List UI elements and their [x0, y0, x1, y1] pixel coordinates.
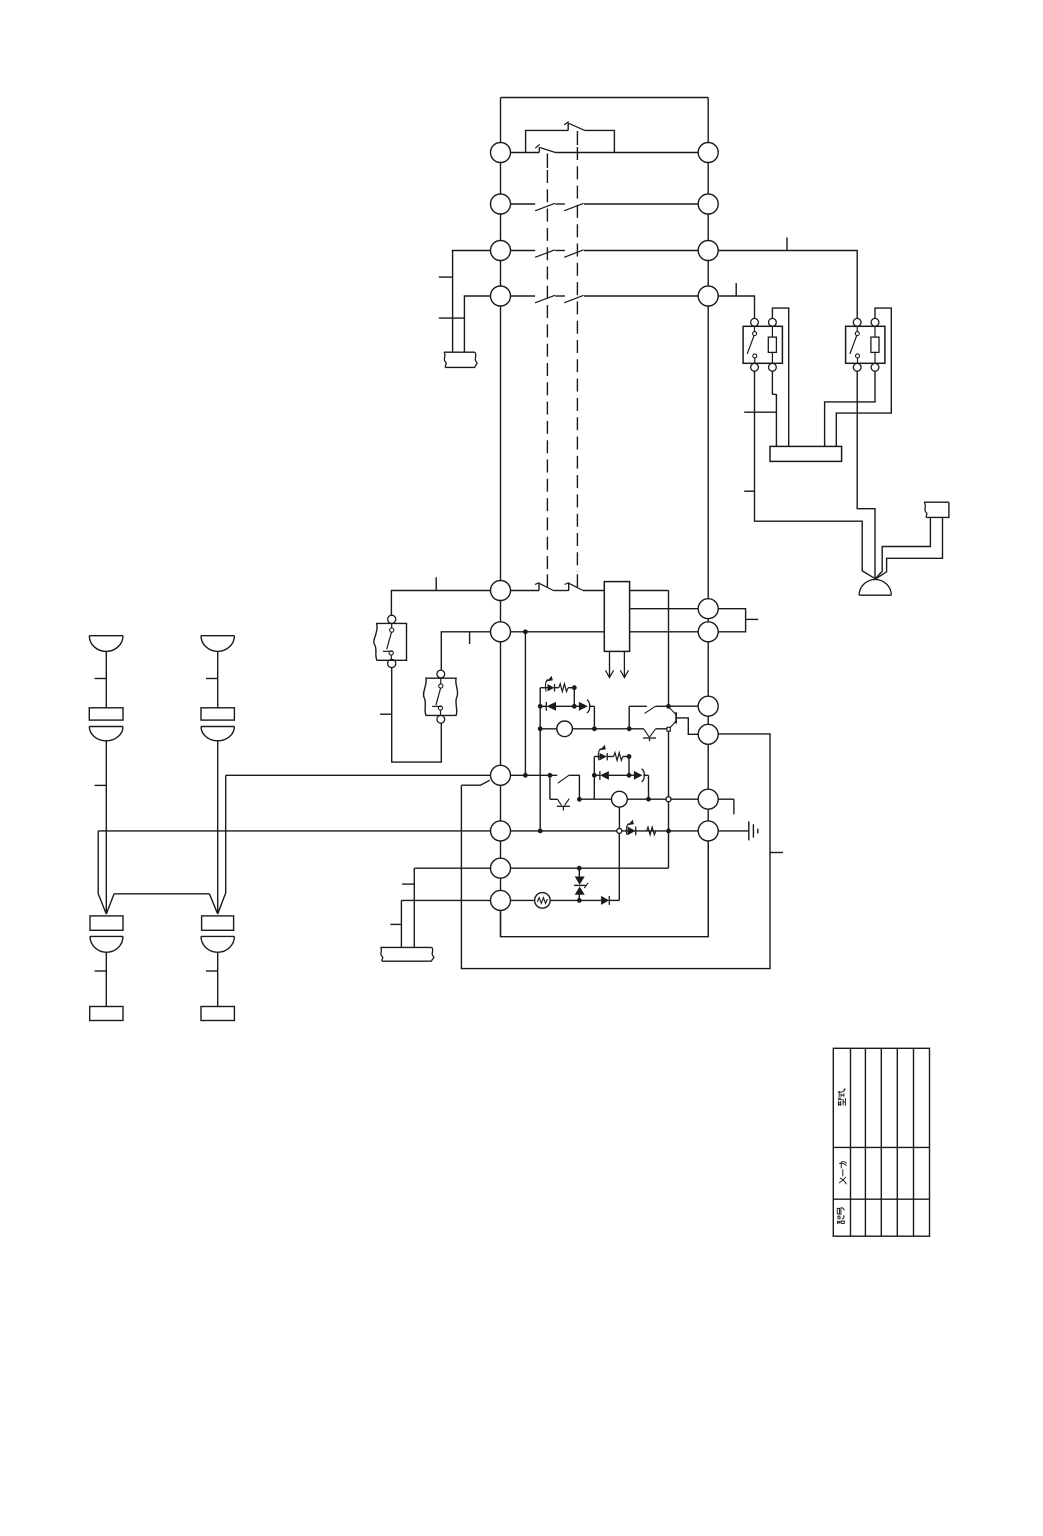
- ground symbol (rotated): [749, 821, 758, 840]
- junction dot D1/R1 output: [572, 685, 577, 690]
- terminal CN-L2 (row2 left): [491, 194, 511, 214]
- terminal CN-L6 (row6 left): [491, 622, 511, 642]
- terminal CN-L10 (row10 left): [491, 890, 511, 910]
- wire: transformer to terminal r5: [630, 608, 709, 610]
- connector tick on row6 left lead: [469, 632, 471, 644]
- switch S1b row1 bypass contact: [526, 122, 615, 153]
- heater H2 socket block: [202, 916, 234, 930]
- diode D2 (pointing left): [540, 702, 574, 711]
- terminal CN-R9 (r9 right): [698, 789, 718, 809]
- wire: row4 extension to box K1: [708, 296, 754, 318]
- wire: vertical branch row6 down to row7: [524, 632, 526, 776]
- diode D5 (pointing left): [594, 771, 629, 780]
- junction dot R2 output: [627, 754, 632, 759]
- table label メーカ (maker) rotated: [839, 1162, 846, 1185]
- switch box K2: [846, 318, 885, 371]
- switch S5 row5 contacts: [501, 583, 605, 591]
- connector tick H1 upper: [95, 678, 107, 680]
- junction dot row10 / zener branch: [577, 898, 582, 903]
- connector tick on K1 bottom-left lead: [744, 490, 754, 492]
- wire: right terminal column vertical: [707, 98, 709, 937]
- parts table grid: [833, 1048, 929, 1236]
- surge diode D6 (pointing right, curved cathode): [629, 769, 649, 782]
- wire: plug P3 lead 2 (staircase to motor tip): [876, 517, 943, 579]
- connector tick H2 upper: [206, 678, 218, 680]
- junction dot row8 / net A: [538, 829, 543, 834]
- wire: row6 from circle to transformer: [501, 631, 605, 633]
- switch S3 row3 contacts: [501, 250, 709, 257]
- wire: diode output up to row8 connector: [618, 833, 620, 900]
- mechanical linkage dashed line 2: [576, 131, 578, 587]
- wire: base node to terminal r7: [669, 705, 709, 707]
- junction dot diode row middle: [627, 773, 632, 778]
- junction dot row7 / row6 branch: [523, 773, 528, 778]
- switch S1a row1 main contact: [501, 144, 709, 152]
- thermal cutout TH1: [374, 615, 407, 667]
- wire: row9 drop to plug P2: [413, 868, 415, 947]
- SCR Q2 (triac drive): [550, 775, 580, 810]
- photo-transistor Q1 with base switch blade: [629, 706, 698, 734]
- wire: long control vertical down to opto transistor: [668, 591, 670, 707]
- wire: row7 feed drop to H2 tip: [218, 775, 226, 914]
- resistor R3 on row8: [647, 827, 656, 835]
- crossing hop circle at rail2: [666, 797, 671, 802]
- wire: TH1 bottom to TH2 bottom loop: [392, 668, 442, 763]
- thermal cutout TH2: [423, 670, 457, 723]
- terminal CN-R1 (row1 right): [698, 143, 718, 163]
- wire: H1 socket lead: [105, 952, 107, 1006]
- resistor R1: [555, 684, 575, 692]
- terminal CN-L3 (row3 left): [491, 241, 511, 261]
- table label 型式 (model) rotated: [838, 1089, 846, 1106]
- wire: outer box (r8 loop): [461, 734, 770, 969]
- resistor R2: [607, 753, 629, 761]
- connector tick on row5 left lead: [435, 577, 437, 590]
- heater H1 terminal block: [90, 1007, 123, 1021]
- heater H1 socket block: [90, 916, 123, 930]
- wire: diode row down to lamp row: [593, 706, 595, 729]
- wire: row10 net left part: [401, 899, 534, 901]
- emitter junction square: [667, 727, 670, 731]
- junction dot net A / diode row: [538, 704, 543, 709]
- thyristor symbol Q3 on lamp row: [643, 729, 667, 742]
- wire: bottom loop left column to terminal r10: [501, 841, 709, 937]
- wire: K2 bottom-right lead to bus bar: [825, 371, 875, 446]
- terminal CN-L4 (row4 left): [491, 286, 511, 306]
- lamp L2 on rail2: [612, 791, 628, 807]
- heater H1 top bell: [89, 636, 123, 652]
- connector tick on outer box right side: [770, 852, 783, 854]
- terminal CN-L9 (row9 left): [491, 858, 511, 878]
- wire: emitter column down to row9: [668, 731, 670, 868]
- terminal bus bar TB1: [770, 446, 842, 461]
- wire: vertical joining LED row to diode row: [573, 688, 575, 707]
- wire: K2 bottom-left lead to motor tip: [857, 371, 875, 579]
- heater H1 lower bell: [89, 727, 123, 741]
- wire: H2 socket lead: [217, 952, 219, 1006]
- connector circle row8 / lamp lead: [617, 828, 622, 833]
- switch S4 row4 contacts: [501, 295, 709, 303]
- wire: r10 to ground: [708, 830, 749, 832]
- connector tick row10 drop: [390, 923, 401, 925]
- motor M1 dome: [859, 580, 891, 596]
- connector tick bar across K1 leads: [744, 411, 776, 413]
- terminal CN-R5 (r5 right): [698, 599, 718, 619]
- wire: transformer to terminal r6: [630, 631, 709, 633]
- junction dot diode row middle: [572, 704, 577, 709]
- mechanical linkage dashed line 1: [546, 154, 548, 588]
- back-to-back zener ZD1: [574, 868, 588, 900]
- terminal CN-R2 (row2 right): [698, 194, 718, 214]
- wire: row8 net (left heater feed to terminal r10): [98, 830, 708, 832]
- wire: row5 left lead: [391, 591, 500, 616]
- surge diode D3 (pointing right, curved cathode): [574, 700, 594, 713]
- connector tick on r9 stub: [733, 799, 735, 814]
- wire: rail2 from lamp to terminal r9: [627, 798, 708, 800]
- terminal CN-R3 (row3 right): [698, 241, 718, 261]
- lamp L1: [540, 721, 644, 737]
- wire: H1 upper lead: [105, 651, 107, 707]
- wire: H2 upper lead: [217, 651, 219, 707]
- transformer output arrow 1: [605, 651, 613, 677]
- junction dot row6/row7 branch: [523, 629, 528, 634]
- plug P3 (torn-end symbol): [924, 502, 949, 517]
- heater H1 body block: [89, 708, 123, 720]
- wire: row10 drop to plug P2: [400, 900, 402, 947]
- LED D7 with photo arrow on row8: [626, 820, 635, 836]
- wire: r9 right stub: [708, 798, 734, 800]
- terminal CN-R10 (r10 right): [698, 821, 718, 841]
- transformer output arrow 2: [620, 651, 628, 677]
- diagonal corner from row7 circle to outer loop: [461, 780, 489, 785]
- wire: lamp L2 bottom lead to row8 connector: [618, 807, 620, 828]
- terminal CN-R6 (r6 right): [698, 622, 718, 642]
- wire: row3 extension to box K2: [708, 251, 857, 319]
- wire: row8 feed drop to H1 tip: [98, 831, 106, 914]
- wire: row3 to plug: [452, 251, 501, 353]
- wire: row9 net: [414, 867, 668, 869]
- wire: TH2 top to row6: [441, 632, 500, 671]
- wire: row7 right of circle: [501, 774, 558, 776]
- wire: K1 bottom-left long lead to motor tip: [755, 371, 876, 579]
- junction dot SCR cathode to rail2: [577, 797, 582, 802]
- terminal CN-L7 (row7 left): [491, 765, 511, 785]
- wire: plug P3 lead 1 (staircase to motor tip): [875, 517, 930, 578]
- wire: diode row down to rail2: [648, 775, 650, 799]
- wire: H2 main lead down to connector tip: [217, 741, 219, 914]
- wire: group2 left vertical: [593, 757, 595, 800]
- switch box K1: [743, 318, 782, 371]
- wire: opto base column: [628, 706, 630, 729]
- heater H2 terminal block: [201, 1007, 234, 1021]
- wire: rail2 (row r9 net): [579, 798, 611, 800]
- junction dot base node: [666, 704, 671, 709]
- wire: K1 bottom-right lead to bus bar: [772, 371, 776, 446]
- wire: row10 net middle: [550, 899, 601, 901]
- table label 記号 (symbol) rotated: [837, 1207, 844, 1223]
- wire: r5-r6 right side loop: [708, 609, 745, 632]
- terminal CN-R8 (r8 right): [698, 724, 718, 744]
- neon lamp NE1: [535, 893, 551, 909]
- wire: group1 left vertical (net A): [539, 688, 541, 831]
- heater H1 socket bell: [90, 936, 123, 952]
- wire: row7 from left heater area to circle: [226, 774, 501, 776]
- connector tick on row4 extension: [735, 283, 737, 296]
- connector tick row9 drop: [402, 883, 414, 885]
- switch S2 row2 contacts: [501, 203, 709, 211]
- wire: H1 main lead down to connector tip: [105, 741, 107, 914]
- connector tick H1 main lead: [95, 784, 107, 786]
- wire: top bus connecting left and right terminal columns: [501, 97, 709, 99]
- LED D4 with photo arrow: [594, 745, 607, 761]
- plug P2 (torn-end symbol): [381, 947, 434, 961]
- connector tick on row3 extension: [786, 238, 788, 251]
- junction dot lamp row / diode column: [592, 726, 597, 731]
- heater H2 socket bell: [201, 936, 234, 952]
- junction dot emitter column / row8: [666, 829, 671, 834]
- junction dot group2 left / diode row: [592, 773, 597, 778]
- transformer T1 body: [604, 582, 629, 652]
- connector tick on r5-r6 loop: [746, 618, 759, 620]
- heater H2 top bell: [201, 636, 234, 652]
- junction dot row7 / SCR anode: [548, 773, 553, 778]
- heater H2 body block: [201, 708, 234, 720]
- junction dot rail2/diode branch: [646, 797, 651, 802]
- wire: left terminal column vertical: [500, 98, 502, 937]
- wire: row4 to plug: [464, 296, 500, 352]
- connector link bar between heater tips: [106, 894, 217, 914]
- connector tick on row4 drop: [439, 317, 465, 319]
- junction dot row9 / zener branch: [577, 866, 582, 871]
- terminal CN-L1 (row1 left): [491, 143, 511, 163]
- connector tick H1 socket lead: [95, 970, 107, 972]
- terminal CN-L5 (row5 left): [491, 581, 511, 601]
- connector tick on row3 drop: [439, 276, 453, 278]
- heater H2 lower bell: [201, 727, 234, 741]
- wire: LED row down to diode row: [628, 757, 630, 776]
- terminal CN-L8 (row8 left): [491, 821, 511, 841]
- wire: K1 top-right lead over to bus bar: [772, 308, 788, 446]
- connector tick H2 socket lead: [206, 970, 218, 972]
- diode D8 on row10: [601, 896, 619, 905]
- LED D1 with photo arrow: [540, 676, 554, 692]
- terminal CN-R4 (row4 right): [698, 286, 718, 306]
- terminal CN-R7 (r7 right): [698, 696, 718, 716]
- power plug P1 (torn-end symbol): [444, 352, 477, 367]
- wire: transformer right top to control vertical: [630, 590, 669, 592]
- connector tick on TH1 bottom lead: [380, 713, 392, 715]
- junction dot lamp row / opto base column: [627, 726, 632, 731]
- junction dot net A / lamp row: [538, 726, 543, 731]
- wire: K2 top-right lead over and down to bus bar: [836, 308, 891, 446]
